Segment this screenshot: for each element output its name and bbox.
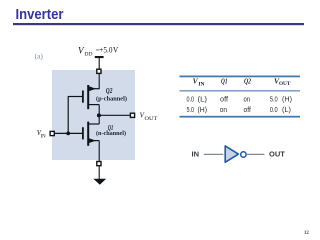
- Q2 drain lead (bottom): [88, 104, 99, 106]
- Q2 gate lead: [68, 96, 82, 98]
- Q1 source lead (bottom): [88, 140, 99, 142]
- wire VDD bar down to terminal: [98, 58, 100, 70]
- truth table header rule: [180, 90, 301, 91]
- Q2 gate bar: [82, 91, 84, 103]
- truth table bottom rule: [180, 116, 301, 118]
- svg-text:(H): (H): [282, 95, 292, 104]
- terminal square VOUT: [130, 113, 134, 117]
- transistor Q1 (n-channel): [55, 122, 99, 146]
- svg-text:on: on: [244, 95, 251, 104]
- svg-text:(L): (L): [282, 105, 291, 114]
- wire inverter output lead: [247, 153, 265, 155]
- node output junction dot: [97, 113, 101, 117]
- ground: [93, 179, 106, 185]
- title underline rule: [13, 23, 304, 25]
- svg-text:IN: IN: [198, 82, 204, 88]
- svg-text:+5.0 V: +5.0 V: [99, 46, 118, 55]
- label VIN: [37, 129, 46, 139]
- gate U1 inverter triangle: [225, 146, 238, 162]
- svg-text:5.0: 5.0: [187, 105, 195, 114]
- label VOUT: [140, 111, 158, 121]
- svg-text:Q2: Q2: [244, 78, 251, 86]
- wire Q1 source down to ground terminal: [98, 141, 100, 161]
- wire terminal to ground symbol: [98, 166, 100, 179]
- svg-text:(H): (H): [198, 105, 208, 114]
- truth table top rule: [180, 76, 301, 78]
- terminal square VDD: [97, 69, 101, 73]
- svg-text:Inverter: Inverter: [16, 7, 64, 23]
- svg-text:5.0: 5.0: [270, 95, 278, 104]
- terminal square VIN: [50, 131, 54, 135]
- svg-text:off: off: [220, 95, 229, 104]
- svg-text:12: 12: [304, 231, 309, 236]
- Q2 source lead (top): [88, 88, 99, 90]
- truth table row 1: [187, 95, 293, 104]
- wire terminal down to Q2 source lead: [98, 74, 100, 89]
- gate U1 inversion bubble: [241, 152, 246, 157]
- svg-text:(a): (a): [35, 52, 44, 61]
- svg-text:0.0: 0.0: [270, 105, 278, 114]
- svg-text:(n-channel): (n-channel): [96, 130, 126, 137]
- Q1 channel bar: [87, 122, 89, 146]
- label VDD = +5.0 V: [78, 46, 118, 58]
- svg-text:DD: DD: [85, 52, 93, 58]
- VDD supply rail bar: [95, 56, 104, 58]
- terminal square ground: [97, 162, 101, 166]
- svg-text:IN: IN: [192, 152, 200, 159]
- svg-text:Q2: Q2: [106, 87, 113, 95]
- node input junction dot: [66, 132, 70, 136]
- svg-text:OUT: OUT: [279, 81, 291, 87]
- shaded circuit background box: [52, 70, 135, 160]
- Q1 gate bar: [82, 127, 84, 139]
- truth table header row: [193, 77, 291, 88]
- svg-text:off: off: [244, 105, 252, 114]
- Q1 drain lead (top): [88, 123, 99, 125]
- Q2 source arrow: [89, 86, 96, 91]
- svg-text:on: on: [220, 105, 227, 114]
- wire node to VOUT terminal: [99, 114, 130, 116]
- wire inverter input lead: [204, 153, 224, 155]
- transistor Q2 (p-channel): [68, 85, 99, 109]
- wire input junction up to Q2 gate: [67, 97, 69, 134]
- svg-text:IN: IN: [41, 134, 47, 139]
- svg-text:Q1: Q1: [221, 78, 228, 86]
- svg-text:(p-channel): (p-channel): [96, 95, 127, 102]
- Q1 source arrow: [89, 138, 96, 143]
- svg-text:0.0: 0.0: [187, 95, 195, 104]
- svg-text:OUT: OUT: [145, 117, 158, 122]
- svg-text:(L): (L): [198, 95, 208, 104]
- truth table row 2: [187, 105, 292, 114]
- svg-text:OUT: OUT: [269, 152, 286, 159]
- Q1 gate lead: [55, 132, 82, 134]
- wire Q2 drain down to output node: [98, 105, 100, 124]
- Q2 channel bar: [87, 85, 89, 109]
